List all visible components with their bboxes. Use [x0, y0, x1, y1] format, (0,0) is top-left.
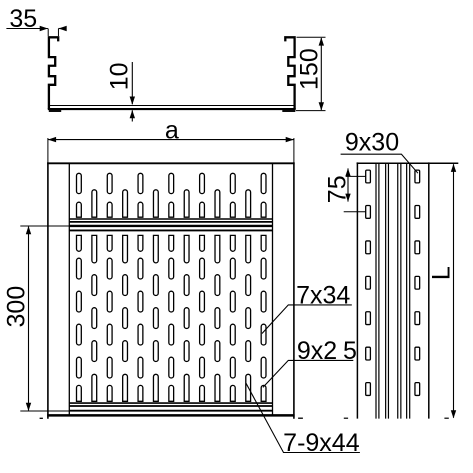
- dimension 300 line and arrows: [20, 226, 69, 411]
- main field slot column 10: [215, 235, 220, 401]
- top-section slot column A6: [230, 173, 235, 217]
- main field slot column 3: [107, 235, 112, 401]
- side view slot row 2: [366, 206, 420, 219]
- dimension 75 line and arrows: [344, 168, 366, 212]
- label 9x25: [263, 337, 357, 388]
- main field slot column 9: [200, 235, 205, 401]
- label 7x34: [262, 281, 352, 333]
- top-section slot column A3: [138, 173, 143, 217]
- side view slot row 1: [366, 170, 420, 183]
- main field slot column 12: [246, 235, 251, 401]
- side view right edge: [428, 162, 430, 418]
- svg-text:150: 150: [296, 48, 324, 90]
- main field slot column 5: [138, 235, 143, 401]
- top-section slot column A4: [169, 173, 174, 217]
- tray floor top edge: [50, 105, 294, 107]
- main field slot column 1: [77, 235, 82, 401]
- side view top edge with extension: [357, 162, 459, 164]
- main field slot column 4: [123, 235, 128, 401]
- svg-text:300: 300: [3, 286, 31, 328]
- svg-text:10: 10: [106, 62, 134, 90]
- label 9x30: [341, 129, 418, 174]
- left side rail profile (cross-section): [49, 37, 58, 109]
- dimension L line and arrows: [344, 164, 456, 419]
- side view left edge: [356, 162, 358, 418]
- plan right flange fold line: [272, 163, 274, 415]
- dimension 10 line and arrows: [130, 62, 135, 122]
- top coupling rib band: [69, 219, 272, 230]
- side view slot row 5: [366, 312, 420, 325]
- side view slot row 3: [366, 241, 420, 254]
- main field slot column 6: [153, 235, 158, 401]
- side view slot row 6: [366, 347, 420, 360]
- label 7-9x44: [246, 383, 360, 457]
- floor left hem: [49, 110, 61, 112]
- bottom edge left tick: [40, 417, 43, 419]
- top-section slot column B4: [184, 190, 189, 217]
- main field slot column 8: [184, 235, 189, 401]
- tray floor bottom edge: [48, 108, 296, 110]
- top-section slot column B5: [215, 190, 220, 217]
- dimension 150 line and arrows: [296, 37, 326, 110]
- dimension a line and arrows: [48, 137, 294, 163]
- main field slot column 11: [230, 235, 235, 401]
- top-section slot column B3: [153, 190, 158, 217]
- top-section slot column A7: [261, 173, 266, 217]
- main field slot column 7: [169, 235, 174, 401]
- side view fold lines: [376, 163, 410, 418]
- top-section slot column A5: [200, 173, 205, 217]
- svg-text:9x30: 9x30: [345, 129, 399, 157]
- svg-text:L: L: [428, 266, 456, 280]
- top-section slot column A1: [77, 173, 82, 217]
- floor right hem: [282, 110, 295, 112]
- bottom coupling rib band: [69, 403, 272, 411]
- bottom edge right tick: [298, 417, 303, 419]
- side view slot row 7: [366, 383, 420, 396]
- dimension 35 line and arrows: [6, 26, 66, 36]
- main field slot column 2: [92, 235, 97, 401]
- right side rail profile (cross-section): [285, 37, 294, 109]
- top-section slot column B1: [92, 190, 97, 217]
- top-section slot column B2: [123, 190, 128, 217]
- main field slot column 13: [261, 235, 266, 401]
- side view slot row 4: [366, 276, 420, 289]
- top-section slot column A2: [107, 173, 112, 217]
- plan left flange fold line: [68, 163, 70, 415]
- top-section slot column B6: [246, 190, 251, 217]
- plan view outer frame: [47, 162, 294, 418]
